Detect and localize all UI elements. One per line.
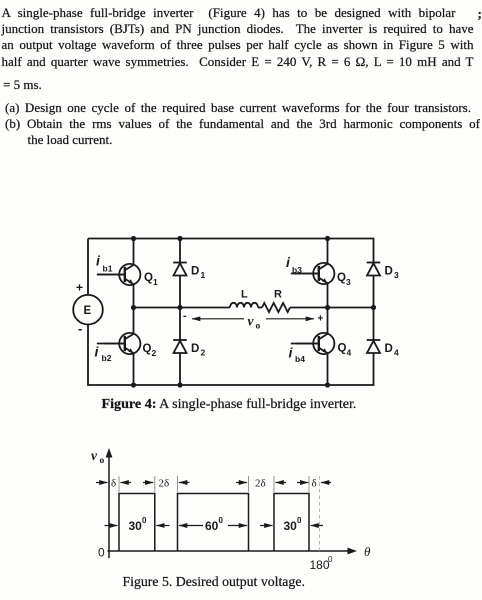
svg-text:0: 0 (219, 516, 224, 525)
svg-text:R: R (274, 289, 282, 301)
svg-text:o: o (100, 456, 105, 466)
svg-text:0: 0 (142, 516, 147, 525)
svg-text:i: i (95, 344, 100, 360)
svg-text:2: 2 (152, 348, 157, 358)
svg-text:Q: Q (338, 343, 347, 355)
svg-text:-: - (183, 310, 187, 322)
svg-text:2: 2 (201, 348, 206, 358)
svg-text:4: 4 (347, 348, 352, 358)
svg-text:30: 30 (284, 519, 298, 533)
svg-text:D: D (191, 343, 199, 355)
svg-text:D: D (191, 266, 199, 278)
svg-text:60: 60 (205, 519, 219, 533)
svg-text:o: o (256, 322, 261, 332)
svg-text:Q: Q (337, 272, 346, 284)
svg-text:3: 3 (394, 270, 399, 280)
svg-text:0: 0 (328, 555, 333, 564)
svg-text:4: 4 (394, 348, 399, 358)
svg-text:0: 0 (297, 516, 302, 525)
svg-text:v: v (248, 314, 255, 329)
svg-text:δ: δ (312, 478, 317, 490)
svg-text:b2: b2 (102, 353, 112, 363)
svg-text:θ: θ (364, 544, 371, 559)
svg-text:-: - (78, 321, 82, 336)
svg-text:2δ: 2δ (159, 478, 170, 490)
svg-text:i: i (286, 254, 291, 270)
svg-text:L: L (241, 289, 248, 301)
svg-text:i: i (96, 253, 101, 269)
svg-text:D: D (385, 266, 393, 278)
svg-text:i: i (289, 345, 294, 361)
svg-text:Q: Q (143, 343, 152, 355)
svg-text:E: E (84, 305, 92, 317)
svg-text:3: 3 (346, 277, 351, 287)
svg-text:Q: Q (144, 272, 153, 284)
svg-text:+: + (318, 314, 324, 325)
svg-text:D: D (385, 343, 393, 355)
svg-text:180: 180 (310, 558, 330, 572)
svg-text:0: 0 (98, 546, 105, 560)
svg-text:1: 1 (153, 277, 158, 287)
svg-text:b4: b4 (295, 354, 305, 364)
svg-text:b1: b1 (103, 264, 113, 274)
svg-text:+: + (76, 281, 83, 295)
svg-text:1: 1 (201, 270, 206, 280)
svg-text:2δ: 2δ (255, 478, 266, 490)
svg-text:30: 30 (129, 519, 143, 533)
svg-text:δ: δ (111, 478, 116, 490)
svg-text:v: v (91, 448, 98, 463)
